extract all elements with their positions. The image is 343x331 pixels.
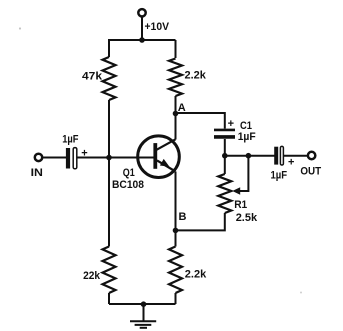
svg-text:+10V: +10V [145,21,170,33]
junction dot C1/R1 [222,153,228,159]
wire 2.2k to rail [175,293,177,304]
svg-text:1µF: 1µF [62,133,79,145]
wire collector [175,114,177,140]
junction dot ground [141,301,147,307]
svg-text:B: B [179,211,187,223]
top rail wire [108,39,176,41]
junction dot wiper [246,153,252,159]
svg-text:2.5k: 2.5k [236,212,258,224]
capacitor input 1uF [68,148,77,169]
junction dot base [106,155,112,161]
wiper arrow [232,156,248,195]
resistor 22k [103,247,116,294]
wire B down [175,230,177,246]
wire node A right [176,113,225,129]
wire C1 down [224,139,226,156]
wire emitter [175,172,177,231]
svg-text:A: A [178,102,186,114]
wire right branch top [175,40,177,58]
resistor 2.2k collector [169,59,182,97]
wire IN to cap [43,157,66,159]
svg-text:47k: 47k [82,71,103,83]
svg-text:2.2k: 2.2k [185,70,207,82]
wire supply stub [141,18,143,41]
svg-text:IN: IN [31,167,43,179]
wire R1 bottom to B [176,213,225,230]
capacitor C1 [214,130,235,137]
svg-text:2.2k: 2.2k [185,269,207,281]
bottom rail wire [109,303,176,305]
wire 22k to rail [108,293,110,304]
node B [173,228,179,234]
svg-text:+: + [81,147,87,159]
resistor 2.2k emitter [169,247,182,294]
transistor Q1 [138,136,180,178]
svg-text:BC108: BC108 [112,179,144,191]
speck top-left [19,27,21,29]
wire left branch top [108,40,110,57]
wire cap to base [77,157,154,159]
wire R1 top [224,156,226,174]
ground [130,304,156,328]
IN terminal [35,154,42,161]
wire 47k to base [108,100,110,158]
svg-text:+: + [228,118,234,130]
node A [173,111,179,117]
svg-text:22k: 22k [83,270,101,282]
capacitor output 1uF [276,146,283,165]
OUT terminal [308,152,315,159]
wire 2.2k to node A [175,96,177,114]
svg-text:1µF: 1µF [271,170,288,182]
wire cap to OUT [284,155,308,157]
svg-text:+: + [288,157,294,169]
resistor R1 2.5k variable [218,174,231,213]
resistor 47k [103,57,116,100]
wire out line [225,155,275,157]
svg-text:R1: R1 [234,199,247,211]
svg-text:Q1: Q1 [123,167,135,179]
junction dot supply [139,37,145,43]
supply terminal +10V [138,9,145,16]
wire base junction down [108,158,110,247]
svg-text:OUT: OUT [300,165,321,177]
speck bottom-right [300,292,302,294]
svg-text:1µF: 1µF [238,131,256,143]
